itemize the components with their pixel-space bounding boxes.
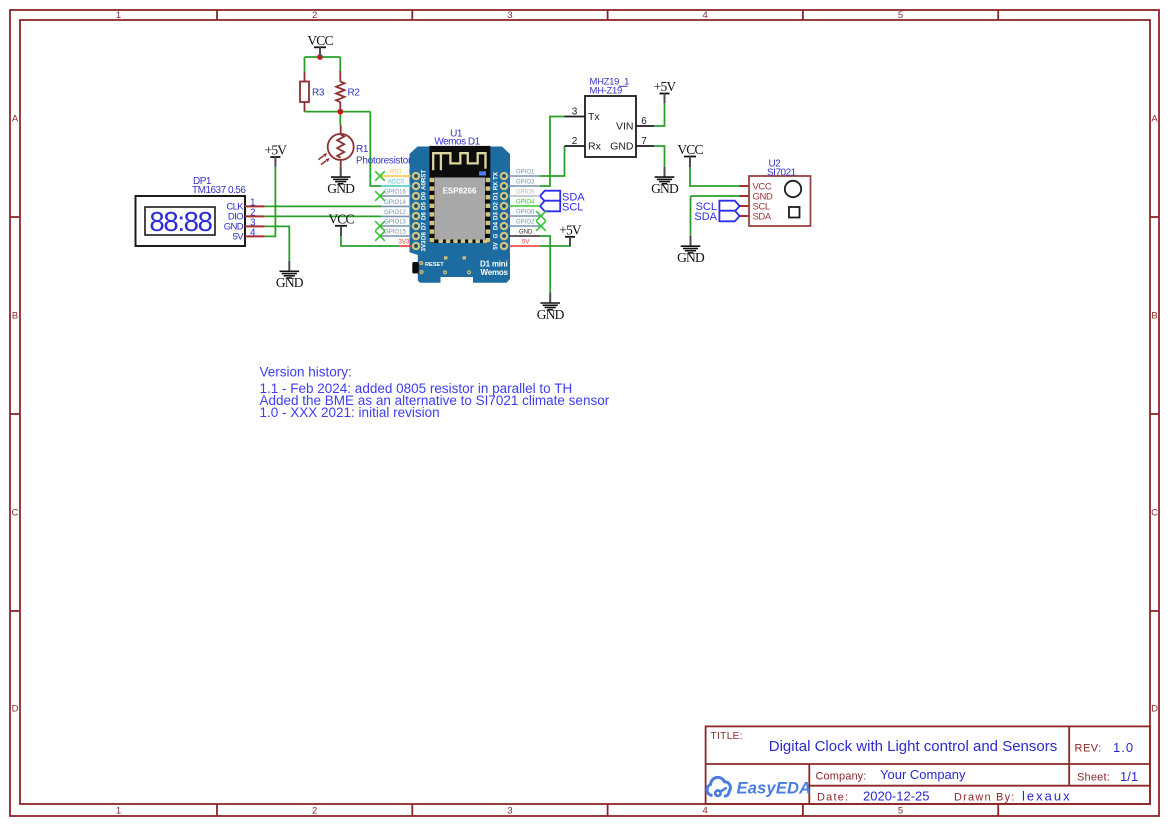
svg-text:A0: A0 <box>421 181 428 189</box>
svg-text:D5: D5 <box>421 201 428 209</box>
svg-text:GND: GND <box>519 230 533 236</box>
svg-text:RST: RST <box>390 170 402 176</box>
svg-text:B: B <box>1151 311 1157 322</box>
svg-text:REV:: REV: <box>1075 743 1102 755</box>
svg-text:TITLE:: TITLE: <box>711 731 743 742</box>
svg-text:Tx: Tx <box>588 111 600 123</box>
svg-text:TX: TX <box>493 171 500 180</box>
svg-text:D3: D3 <box>493 211 500 219</box>
svg-text:D1: D1 <box>493 191 500 199</box>
svg-text:D7: D7 <box>421 221 428 229</box>
svg-text:ESP8266: ESP8266 <box>443 186 477 195</box>
svg-text:GPIO0: GPIO0 <box>516 210 535 216</box>
svg-text:SDA: SDA <box>694 211 717 223</box>
svg-text:A: A <box>1151 114 1158 125</box>
svg-text:R3: R3 <box>312 88 325 99</box>
svg-text:TM1637 0.56: TM1637 0.56 <box>192 185 246 196</box>
svg-text:Wemos: Wemos <box>481 268 509 277</box>
svg-text:RX: RX <box>493 181 500 190</box>
svg-text:2: 2 <box>312 10 317 21</box>
svg-text:5: 5 <box>898 806 903 817</box>
svg-text:1: 1 <box>116 806 121 817</box>
svg-text:SCL: SCL <box>562 201 583 213</box>
svg-text:R2: R2 <box>348 88 361 99</box>
svg-text:lexaux: lexaux <box>1022 788 1072 803</box>
svg-text:Rx: Rx <box>588 140 602 152</box>
svg-text:D1 mini: D1 mini <box>480 259 508 268</box>
svg-text:GPIO15: GPIO15 <box>384 230 406 236</box>
svg-text:5V: 5V <box>233 232 245 243</box>
svg-text:MH-Z19: MH-Z19 <box>590 85 623 96</box>
svg-text:GPIO13: GPIO13 <box>384 220 406 226</box>
svg-text:R1: R1 <box>356 144 369 155</box>
svg-text:3: 3 <box>572 107 578 118</box>
svg-text:ADC0: ADC0 <box>388 180 405 186</box>
svg-text:2: 2 <box>572 136 578 147</box>
svg-text:Wemos D1: Wemos D1 <box>434 137 480 148</box>
svg-text:GPIO3: GPIO3 <box>516 180 535 186</box>
svg-text:1.0 - XXX 2021: initial revisi: 1.0 - XXX 2021: initial revision <box>260 405 440 420</box>
svg-text:7: 7 <box>641 136 647 147</box>
svg-text:Sheet:: Sheet: <box>1077 772 1110 784</box>
svg-text:D: D <box>12 704 19 715</box>
svg-text:A: A <box>12 114 19 125</box>
svg-text:D0: D0 <box>421 191 428 199</box>
svg-text:G: G <box>493 233 500 238</box>
svg-text:Company:: Company: <box>816 771 867 783</box>
svg-text:RST: RST <box>421 170 428 183</box>
svg-text:Version history:: Version history: <box>260 364 352 379</box>
svg-text:4: 4 <box>703 806 708 817</box>
svg-text:Photoresistor: Photoresistor <box>356 156 412 167</box>
svg-text:3: 3 <box>507 806 512 817</box>
svg-text:6: 6 <box>641 116 647 127</box>
svg-text:B: B <box>12 311 18 322</box>
svg-text:Date:: Date: <box>817 792 849 804</box>
svg-text:D8: D8 <box>421 231 428 239</box>
svg-text:Drawn By:: Drawn By: <box>954 792 1016 804</box>
svg-text:GPIO12: GPIO12 <box>384 210 406 216</box>
svg-text:D2: D2 <box>493 201 500 209</box>
svg-text:GPIO4: GPIO4 <box>516 200 535 206</box>
svg-text:1: 1 <box>116 10 121 21</box>
svg-text:SI7021: SI7021 <box>767 167 797 178</box>
svg-text:RESET: RESET <box>425 262 444 268</box>
svg-text:GPIO2: GPIO2 <box>516 220 535 226</box>
svg-text:5V: 5V <box>493 241 500 249</box>
svg-text:4: 4 <box>703 10 708 21</box>
svg-text:3V3: 3V3 <box>421 240 428 252</box>
svg-text:3V3: 3V3 <box>399 240 410 246</box>
svg-text:GPIO1: GPIO1 <box>516 170 535 176</box>
svg-text:SDA: SDA <box>753 211 772 222</box>
svg-text:D6: D6 <box>421 211 428 219</box>
svg-text:1.0: 1.0 <box>1113 740 1134 755</box>
svg-text:C: C <box>12 508 19 519</box>
svg-text:2: 2 <box>312 806 317 817</box>
svg-text:EasyEDA: EasyEDA <box>737 780 812 798</box>
svg-text:88:88: 88:88 <box>149 206 212 237</box>
svg-text:5: 5 <box>898 10 903 21</box>
svg-text:5V: 5V <box>522 240 529 246</box>
svg-text:1/1: 1/1 <box>1120 769 1138 784</box>
svg-text:4: 4 <box>250 228 256 239</box>
svg-text:Your Company: Your Company <box>880 767 966 782</box>
svg-text:2020-12-25: 2020-12-25 <box>863 788 930 803</box>
svg-text:GPIO14: GPIO14 <box>384 200 406 206</box>
svg-text:GPIO16: GPIO16 <box>384 190 406 196</box>
svg-text:D4: D4 <box>493 221 500 229</box>
svg-text:3: 3 <box>507 10 512 21</box>
svg-text:VIN: VIN <box>616 120 634 132</box>
svg-text:D: D <box>1151 704 1158 715</box>
svg-text:GPIO5: GPIO5 <box>516 190 535 196</box>
svg-text:C: C <box>1151 508 1158 519</box>
svg-text:Digital Clock with Light contr: Digital Clock with Light control and Sen… <box>769 738 1057 755</box>
svg-text:GND: GND <box>610 140 634 152</box>
